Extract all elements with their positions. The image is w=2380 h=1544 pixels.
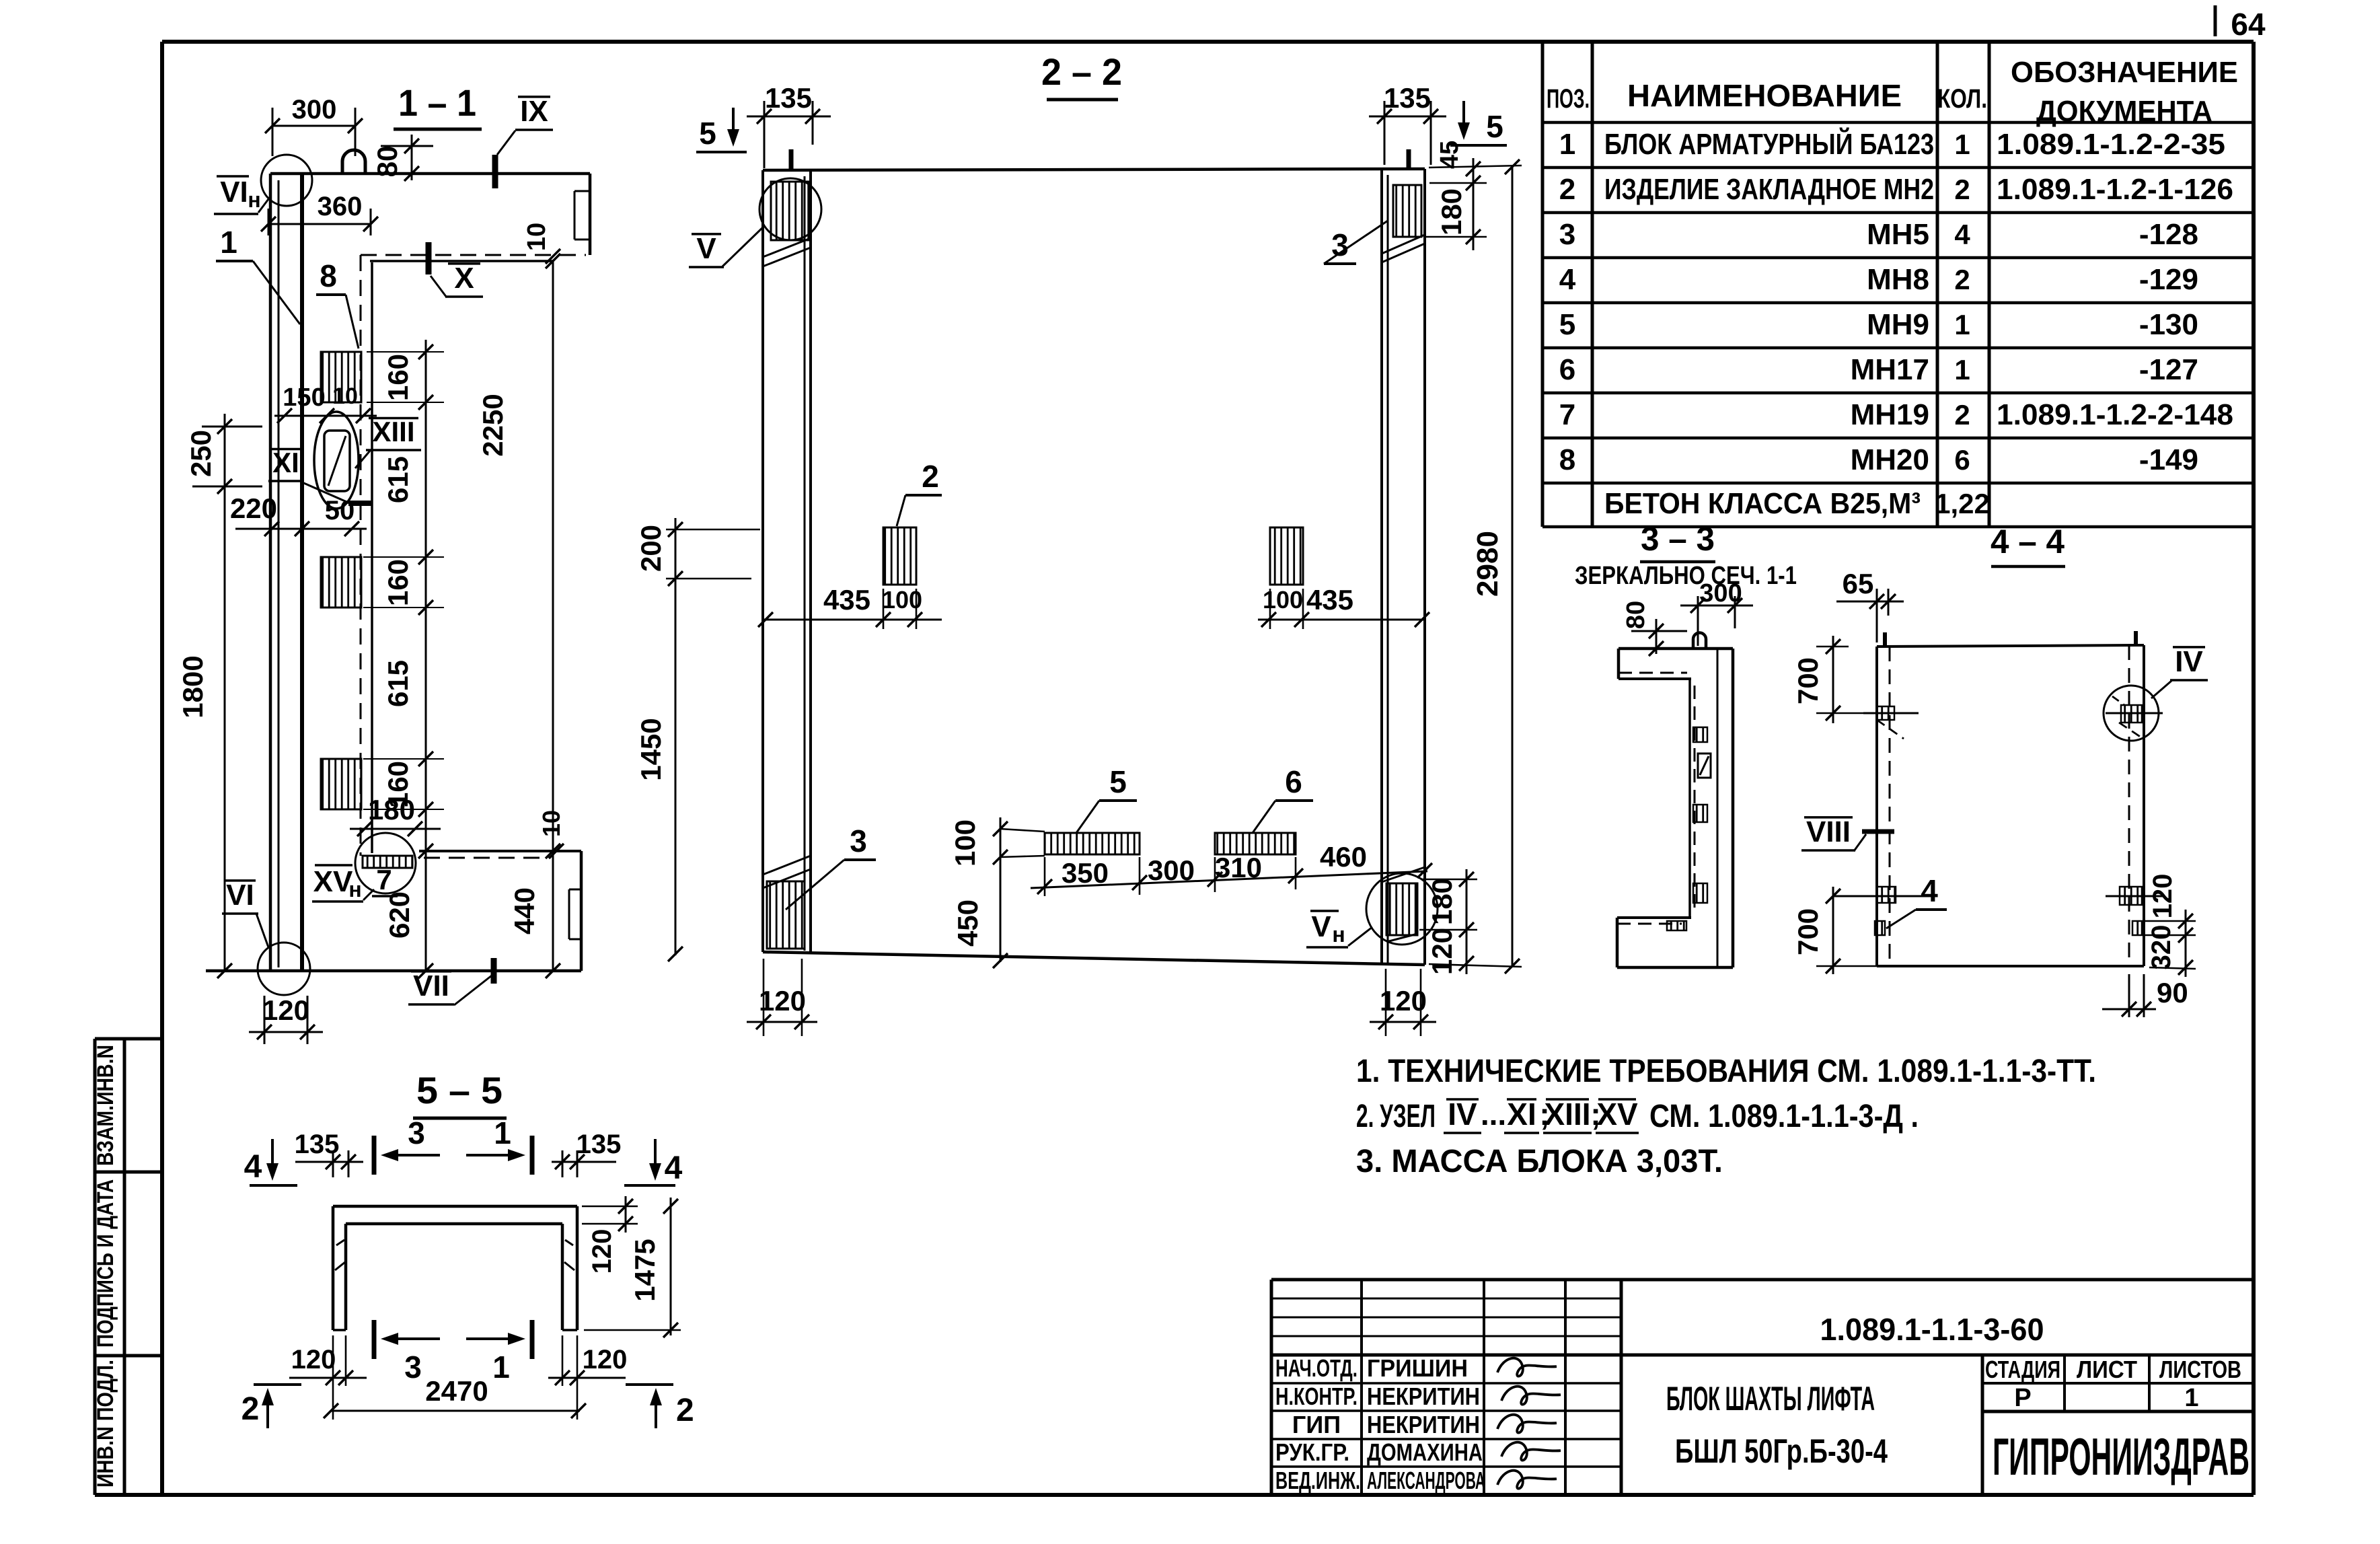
dim 120/320 (4-4 right) [2185, 910, 2187, 977]
dim 80 (loop height) [381, 145, 433, 147]
5-5 right leg bottom [562, 1329, 577, 1331]
dim 250/1800 vertical line [224, 414, 226, 971]
svg-text:6: 6 [1559, 353, 1575, 386]
svg-text:5: 5 [1559, 308, 1575, 341]
svg-text:-129: -129 [2139, 263, 2198, 296]
3-3 bottom flange embed [1667, 921, 1686, 930]
section mark 1 (5-5 bottom) [530, 1320, 535, 1359]
svg-text:5: 5 [699, 116, 716, 151]
svg-text:н: н [248, 188, 260, 212]
2-2 strip 5 (hatched) [1045, 833, 1140, 854]
dim 700 (4-4 top) [1832, 636, 1834, 723]
4-4 right anchor pin [2134, 631, 2138, 645]
parts table grid [1541, 42, 1545, 527]
svg-text:1: 1 [1954, 309, 1970, 340]
2-2 right bottom embed (hatched) [1386, 883, 1417, 935]
svg-text:3: 3 [404, 1350, 422, 1385]
title block grid verticals [1360, 1280, 1363, 1495]
svg-text:-130: -130 [2139, 308, 2198, 341]
svg-text:VI: VI [226, 879, 254, 912]
svg-text:IV: IV [1448, 1097, 1477, 1132]
5-5 right leg inner [561, 1224, 564, 1330]
svg-text:1: 1 [1954, 128, 1970, 160]
4-4 right top embed [2121, 705, 2142, 723]
svg-text:1: 1 [1954, 354, 1970, 385]
svg-text:ДОКУМЕНТА: ДОКУМЕНТА [2036, 95, 2212, 128]
1-1 bottom flange hidden edge (dashed) [424, 857, 548, 859]
4-4 left wall hidden line (dashed) [1889, 647, 1891, 966]
svg-text:135: 135 [765, 82, 812, 114]
svg-text:н: н [1332, 922, 1345, 947]
2-2 left column outer face [761, 170, 764, 952]
svg-text:БШЛ 50Гр.Б-30-4: БШЛ 50Гр.Б-30-4 [1675, 1432, 1888, 1470]
svg-text:V: V [696, 232, 716, 265]
1-1 wall outer face [269, 174, 272, 971]
3-3 bottom flange top edge [1617, 916, 1691, 919]
svg-text:ВЕД.ИНЖ.: ВЕД.ИНЖ. [1275, 1467, 1360, 1494]
svg-text:БЕТОН КЛАССА В25,М³: БЕТОН КЛАССА В25,М³ [1604, 487, 1921, 520]
svg-text:2: 2 [676, 1393, 694, 1428]
svg-text:2: 2 [1954, 264, 1970, 295]
4-4 left anchor pin [1883, 632, 1887, 647]
page number 64 box [2214, 5, 2217, 36]
4-4 left small embed [1875, 921, 1885, 935]
section mark 2 (5-5 bottom right) [626, 1383, 673, 1386]
1-1 inner opening edge (vertical) [371, 262, 373, 853]
svg-text:ПОЗ.: ПОЗ. [1547, 84, 1590, 114]
svg-text:2980: 2980 [1471, 531, 1504, 597]
label X with leader and section tick [426, 242, 432, 274]
svg-text:160: 160 [382, 354, 414, 401]
svg-text:64: 64 [2231, 7, 2266, 42]
svg-text:200: 200 [635, 525, 667, 572]
svg-text:1 – 1: 1 – 1 [398, 81, 476, 124]
3-3 bottom edge [1617, 966, 1733, 969]
svg-text:1.089.1-1.1-3-60: 1.089.1-1.1-3-60 [1820, 1312, 2044, 1347]
dim 65 (4-4) [1836, 601, 1904, 603]
section mark 3 (5-5 top) [372, 1136, 377, 1175]
svg-text:СТАДИЯ: СТАДИЯ [1985, 1356, 2060, 1383]
svg-text:135: 135 [577, 1130, 622, 1159]
svg-text:МН19: МН19 [1851, 398, 1929, 431]
svg-text:VIII: VIII [1806, 815, 1851, 848]
svg-text:НАИМЕНОВАНИЕ: НАИМЕНОВАНИЕ [1627, 78, 1902, 113]
svg-text:1800: 1800 [177, 655, 209, 718]
1-1 inner opening hidden line (dashed vertical) [360, 255, 362, 856]
svg-text:МН20: МН20 [1851, 443, 1929, 476]
dim 120 (2-2 right bottom) [1370, 1021, 1436, 1023]
svg-text:3: 3 [408, 1115, 425, 1150]
dim 620 [425, 829, 427, 971]
svg-text:3 – 3: 3 – 3 [1641, 520, 1715, 558]
svg-text:360: 360 [318, 192, 363, 221]
svg-text:1.089.1-1.2-1-126: 1.089.1-1.2-1-126 [1997, 173, 2233, 206]
svg-text:4: 4 [244, 1149, 262, 1185]
svg-text:БЛОК ШАХТЫ ЛИФТА: БЛОК ШАХТЫ ЛИФТА [1666, 1380, 1875, 1418]
dim line 2250/440 vertical [552, 261, 554, 971]
3-3 lifting loop [1693, 633, 1706, 649]
svg-text:300: 300 [292, 95, 337, 124]
3-3 top flange hidden edge (dashed) [1619, 672, 1687, 674]
1-1 bottom flange right edge [580, 851, 583, 971]
5-5 left leg bottom [333, 1329, 346, 1331]
5-5 left leg inner [344, 1224, 348, 1330]
4-4 right small embed [2132, 921, 2142, 935]
2-2 shaft bottom line [763, 952, 1425, 965]
svg-text:1: 1 [492, 1350, 510, 1385]
svg-text:150: 150 [283, 383, 325, 412]
svg-text:160: 160 [382, 559, 414, 606]
svg-text:5 – 5: 5 – 5 [416, 1069, 503, 1111]
svg-text:ПОДПИСЬ И ДАТА: ПОДПИСЬ И ДАТА [93, 1179, 118, 1348]
svg-text:7: 7 [1559, 398, 1575, 431]
1-1 top flange right edge [589, 174, 592, 255]
1-1 top flange bottom edge [370, 260, 553, 262]
svg-text:1: 1 [2184, 1384, 2198, 1412]
3-3 inner face vertical [1688, 679, 1691, 918]
svg-text:120: 120 [583, 1345, 628, 1374]
4-4 right wall face [2143, 645, 2145, 966]
dim 90 (4-4 bottom) [2128, 974, 2130, 1017]
embed 8 block 1 (hatched) [321, 352, 361, 402]
2-2 left top embed (hatched) [771, 182, 809, 240]
svg-text:10: 10 [537, 810, 565, 837]
svg-text:ГИП: ГИП [1292, 1411, 1341, 1438]
3-3 inner hidden line (dashed) [1694, 686, 1696, 915]
3-3 bottom flange left edge [1616, 918, 1619, 967]
signatures [1497, 1358, 1557, 1376]
2-2 right top embed (hatched) [1393, 185, 1421, 237]
svg-text:IX: IX [520, 95, 548, 128]
svg-text:10: 10 [332, 383, 358, 409]
svg-text:1: 1 [1559, 128, 1575, 161]
svg-text:300: 300 [1699, 579, 1742, 608]
3-3 embeds on inner face [1693, 727, 1707, 742]
2-2 right top taper break lines [1382, 244, 1425, 262]
dim 220 / 50 [235, 528, 367, 530]
svg-text:БЛОК АРМАТУРНЫЙ БА123: БЛОК АРМАТУРНЫЙ БА123 [1604, 126, 1934, 161]
dim 135 (2-2 right top) [1369, 116, 1446, 118]
section mark 1 (5-5 top) [530, 1136, 535, 1175]
svg-text:IV: IV [2175, 645, 2203, 678]
svg-text:XI: XI [1507, 1097, 1536, 1132]
2-2 mid embed left (hatched, pos 2) [883, 527, 916, 585]
title block outer top [1271, 1278, 2254, 1282]
dim 120 (5-5 bottom right) [548, 1377, 626, 1379]
svg-text:3: 3 [1559, 218, 1575, 251]
2-2 strip 6 (hatched) [1215, 833, 1296, 854]
1-1 wall inner face [300, 174, 304, 971]
dim 700 (4-4 bottom) [1832, 887, 1834, 974]
dim 120 (5-5 bottom left) [289, 1377, 367, 1379]
svg-text:7: 7 [376, 864, 392, 895]
2-2 right bottom node circle Vн [1366, 873, 1438, 945]
svg-text:АЛЕКСАНДРОВА: АЛЕКСАНДРОВА [1367, 1467, 1485, 1494]
node circle VIн (top) [261, 155, 312, 206]
svg-text:2: 2 [1954, 399, 1970, 431]
1-1 top flange top edge [270, 172, 590, 176]
2-2 node circle V [759, 178, 821, 240]
1-1 top flange groove [574, 190, 590, 192]
3-3 top flange left edge [1617, 649, 1621, 679]
2-2 left anchor pin [789, 149, 794, 170]
svg-text:1: 1 [494, 1115, 511, 1150]
3-3 wall inner line [1717, 649, 1719, 967]
svg-text:120: 120 [262, 994, 309, 1026]
node circle VI (bottom) [258, 943, 310, 995]
dim 100/435 (right) [1258, 619, 1425, 621]
svg-text:2 – 2: 2 – 2 [1041, 50, 1122, 93]
2-2 right anchor pin [1407, 149, 1411, 169]
svg-text:1450: 1450 [635, 718, 667, 780]
node circle XVн [355, 833, 416, 893]
svg-text:СМ. 1.089.1-1.1-3-Д .: СМ. 1.089.1-1.1-3-Д . [1649, 1099, 1919, 1134]
svg-text:ЛИСТ: ЛИСТ [2077, 1356, 2137, 1383]
svg-text:220: 220 [230, 492, 277, 524]
svg-text:РУК.ГР.: РУК.ГР. [1275, 1438, 1349, 1466]
4-4 right wall hidden line (dashed) [2128, 645, 2130, 966]
svg-text:ВЗАМ.ИНВ.N: ВЗАМ.ИНВ.N [93, 1045, 118, 1166]
svg-text:615: 615 [382, 456, 414, 503]
4-4 left wall face [1875, 647, 1878, 966]
5-5 channel inner top [346, 1222, 562, 1226]
svg-text:450: 450 [952, 899, 983, 947]
2-2 right column outer face [1423, 169, 1426, 965]
2-2 shaft top line [763, 169, 1425, 170]
svg-text:4 – 4: 4 – 4 [1991, 523, 2065, 560]
svg-text:310: 310 [1215, 852, 1262, 883]
1-1 wall mid line [278, 180, 280, 967]
svg-text:65: 65 [1843, 568, 1874, 599]
svg-text:X: X [454, 262, 474, 295]
svg-text:45: 45 [1436, 141, 1464, 169]
svg-text:120: 120 [2148, 874, 2178, 919]
dim 120 (1-1 bottom) [249, 1031, 323, 1033]
svg-text:2470: 2470 [425, 1375, 488, 1407]
svg-text:XIII: XIII [372, 416, 414, 447]
2-2 left bottom taper break lines [763, 869, 811, 888]
dim 2980 [1512, 166, 1514, 967]
4-4 bottom edge [1877, 965, 2144, 967]
dim 300 (3-3) [1680, 605, 1753, 607]
2-2 left column inner face [809, 170, 812, 952]
svg-text:100: 100 [949, 819, 981, 867]
dim 45/180 (2-2 right top chain) [1473, 158, 1475, 250]
4-4 left bottom embed [1877, 887, 1896, 903]
5-5 right leg outer [576, 1206, 579, 1330]
svg-text:700: 700 [1792, 657, 1824, 704]
svg-text:120: 120 [291, 1345, 336, 1374]
4-4 top edge [1877, 645, 2144, 647]
dim 80 (3-3) [1631, 630, 1687, 632]
svg-text:120: 120 [1426, 928, 1458, 975]
svg-text:8: 8 [320, 258, 337, 293]
svg-text:VII: VII [413, 969, 449, 1002]
2-2 left bottom embed (hatched) [767, 881, 805, 949]
svg-text:90: 90 [2157, 977, 2188, 1008]
dim 1475 [670, 1198, 672, 1335]
svg-text:615: 615 [382, 660, 414, 707]
dim 135 (2-2 left top) [747, 116, 831, 118]
embed 8 block 2 (hatched) [321, 557, 361, 608]
svg-text:3: 3 [850, 823, 867, 858]
2-2 right column inner thin line [1387, 175, 1389, 963]
dim 135 (5-5 left) [295, 1161, 363, 1163]
svg-text:1475: 1475 [629, 1239, 661, 1301]
svg-text:100: 100 [882, 586, 922, 614]
svg-text:440: 440 [509, 887, 540, 934]
section mark 2 (5-5 bottom left) [254, 1383, 301, 1386]
svg-text:VI: VI [220, 176, 248, 209]
lifting loop 1-1 [342, 150, 365, 174]
3-3 bottom flange hidden edge (dashed) [1617, 923, 1682, 925]
svg-text:-127: -127 [2139, 353, 2198, 386]
svg-text:ИЗДЕЛИЕ ЗАКЛАДНОЕ МН2: ИЗДЕЛИЕ ЗАКЛАДНОЕ МН2 [1604, 173, 1934, 206]
svg-text:ЛИСТОВ: ЛИСТОВ [2159, 1356, 2241, 1383]
svg-text:135: 135 [1384, 82, 1431, 114]
svg-text:135: 135 [295, 1130, 340, 1159]
svg-text:460: 460 [1320, 841, 1367, 873]
svg-text:4: 4 [1559, 263, 1576, 296]
svg-text:МН17: МН17 [1851, 353, 1929, 386]
dim 120 (2-2 left bottom) [747, 1021, 817, 1023]
svg-text:-149: -149 [2139, 443, 2198, 476]
svg-text:XIII: XIII [1544, 1097, 1590, 1132]
svg-text:Н.КОНТР.: Н.КОНТР. [1275, 1383, 1358, 1410]
svg-text:4: 4 [1921, 873, 1938, 908]
3-3 wall right outer face [1732, 649, 1735, 967]
dim 360 [268, 223, 371, 225]
svg-text:ДОМАХИНА: ДОМАХИНА [1367, 1438, 1483, 1466]
svg-text:XV: XV [313, 865, 353, 898]
svg-text:XV: XV [1596, 1097, 1638, 1132]
svg-text:...: ... [1481, 1097, 1506, 1132]
5-5 channel outer top [333, 1205, 577, 1208]
dim 135 (5-5 right) [552, 1161, 616, 1163]
svg-text:1: 1 [220, 225, 237, 260]
svg-text:4: 4 [665, 1150, 683, 1186]
4-4 left top embed [1877, 706, 1894, 720]
svg-text:ИНВ.N ПОДЛ.: ИНВ.N ПОДЛ. [93, 1360, 118, 1487]
svg-text:ОБОЗНАЧЕНИЕ: ОБОЗНАЧЕНИЕ [2011, 56, 2238, 89]
1-1 top flange hidden bottom edge (dashed) [361, 254, 586, 256]
svg-text:700: 700 [1792, 908, 1824, 955]
5-5 leg marks [336, 1240, 344, 1245]
svg-text:НЕКРИТИН: НЕКРИТИН [1367, 1411, 1480, 1438]
svg-text:435: 435 [1306, 584, 1353, 616]
svg-text:4: 4 [1954, 219, 1970, 250]
dim 2470 [331, 1410, 580, 1412]
svg-text:180: 180 [1426, 878, 1458, 925]
svg-text:1.089.1-1.2-2-148: 1.089.1-1.2-2-148 [1997, 398, 2233, 431]
svg-text:Р: Р [2014, 1384, 2031, 1412]
svg-text:-128: -128 [2139, 218, 2198, 251]
svg-text:1.089.1-1.2-2-35: 1.089.1-1.2-2-35 [1997, 128, 2225, 161]
svg-text:80: 80 [371, 146, 403, 178]
svg-text:120: 120 [759, 985, 806, 1017]
svg-text:2. УЗЕЛ: 2. УЗЕЛ [1356, 1099, 1436, 1134]
svg-text:2: 2 [1954, 174, 1970, 205]
svg-text:МН9: МН9 [1867, 308, 1929, 341]
svg-text:ГИПРОНИИЗДРАВ: ГИПРОНИИЗДРАВ [1993, 1427, 2249, 1486]
svg-text:180: 180 [1436, 188, 1467, 235]
svg-text:320: 320 [2147, 925, 2176, 970]
svg-text:620: 620 [383, 891, 415, 939]
2-2 right bottom taper break line [1382, 867, 1425, 882]
svg-text:120: 120 [587, 1229, 617, 1274]
svg-text:3. МАССА БЛОКА 3,03Т.: 3. МАССА БЛОКА 3,03Т. [1356, 1144, 1723, 1179]
svg-text:300: 300 [1148, 854, 1195, 886]
svg-text:10: 10 [523, 223, 551, 251]
dim chain 160/615/160/615/160 vertical [425, 340, 427, 829]
svg-text:120: 120 [1380, 985, 1427, 1017]
title block grid horizontals [1271, 1298, 1621, 1300]
svg-text:50: 50 [325, 496, 355, 525]
svg-text:100: 100 [1263, 586, 1303, 614]
2-2 mid embed right (hatched, pos 2) [1270, 527, 1303, 585]
dim 180/120 (2-2 right bottom) [1466, 869, 1468, 974]
2-2 left column taper break lines [763, 248, 811, 266]
svg-text:80: 80 [1622, 601, 1650, 629]
svg-text:180: 180 [368, 794, 415, 825]
svg-text:6: 6 [1285, 764, 1302, 799]
dim 435/100 (left) [763, 619, 942, 621]
svg-text:250: 250 [185, 430, 217, 477]
svg-text:ГРИШИН: ГРИШИН [1367, 1354, 1468, 1382]
section mark 3 (5-5 bottom) [372, 1320, 377, 1359]
3-3 top edge [1619, 647, 1733, 651]
dim 150 / 10 [274, 415, 377, 417]
5-5 left leg outer [332, 1206, 335, 1330]
svg-text:ЗЕРКАЛЬНО СЕЧ. 1-1: ЗЕРКАЛЬНО СЕЧ. 1-1 [1575, 562, 1797, 590]
svg-text:МН5: МН5 [1867, 218, 1929, 251]
svg-text:V: V [1311, 910, 1331, 943]
2-2 right column inner face [1380, 169, 1383, 965]
4-4 node circle IV [2104, 686, 2159, 741]
dim 180 (bottom flange offset) [350, 828, 441, 830]
svg-text:2: 2 [1559, 173, 1575, 206]
svg-text:5: 5 [1109, 764, 1127, 799]
svg-text:КОЛ.: КОЛ. [1937, 84, 1987, 114]
2-2 left column inner thin line [804, 176, 806, 951]
svg-text:МН8: МН8 [1867, 263, 1929, 296]
svg-text:НЕКРИТИН: НЕКРИТИН [1367, 1383, 1480, 1410]
1-1 bottom flange top edge [419, 850, 581, 852]
1-1 bottom flange groove [569, 889, 581, 891]
sidebar column lines [94, 1039, 97, 1495]
svg-text:435: 435 [823, 584, 870, 616]
svg-text:2250: 2250 [477, 394, 509, 456]
dim 300 (1-1 top) [272, 125, 355, 127]
embed 8 block 3 (hatched) [321, 759, 361, 809]
1-1 bottom edge [206, 969, 581, 973]
svg-text:2: 2 [241, 1391, 260, 1427]
svg-text:8: 8 [1559, 443, 1575, 476]
svg-text:1. ТЕХНИЧЕСКИЕ ТРЕБОВАНИЯ СМ: 1. ТЕХНИЧЕСКИЕ ТРЕБОВАНИЯ СМ. 1.089.1-1.… [1356, 1054, 2096, 1089]
dim chain 350/300/310/460 [1031, 871, 1427, 888]
3-3 top flange bottom edge [1619, 677, 1691, 680]
svg-text:НАЧ.ОТД.: НАЧ.ОТД. [1275, 1354, 1358, 1382]
dim 100/450 (strips vertical) [1000, 817, 1002, 962]
dim 200/1450 (2-2 left chain) [675, 518, 677, 955]
svg-text:XI: XI [272, 447, 299, 478]
4-4 right bottom embed [2120, 887, 2142, 905]
embed plate 7 (hatched) [363, 856, 412, 868]
slot XIII oval [314, 412, 359, 509]
svg-text:2: 2 [922, 459, 939, 494]
dim 120 (5-5 flange right) [582, 1206, 638, 1208]
svg-text:1,22: 1,22 [1935, 488, 1990, 519]
